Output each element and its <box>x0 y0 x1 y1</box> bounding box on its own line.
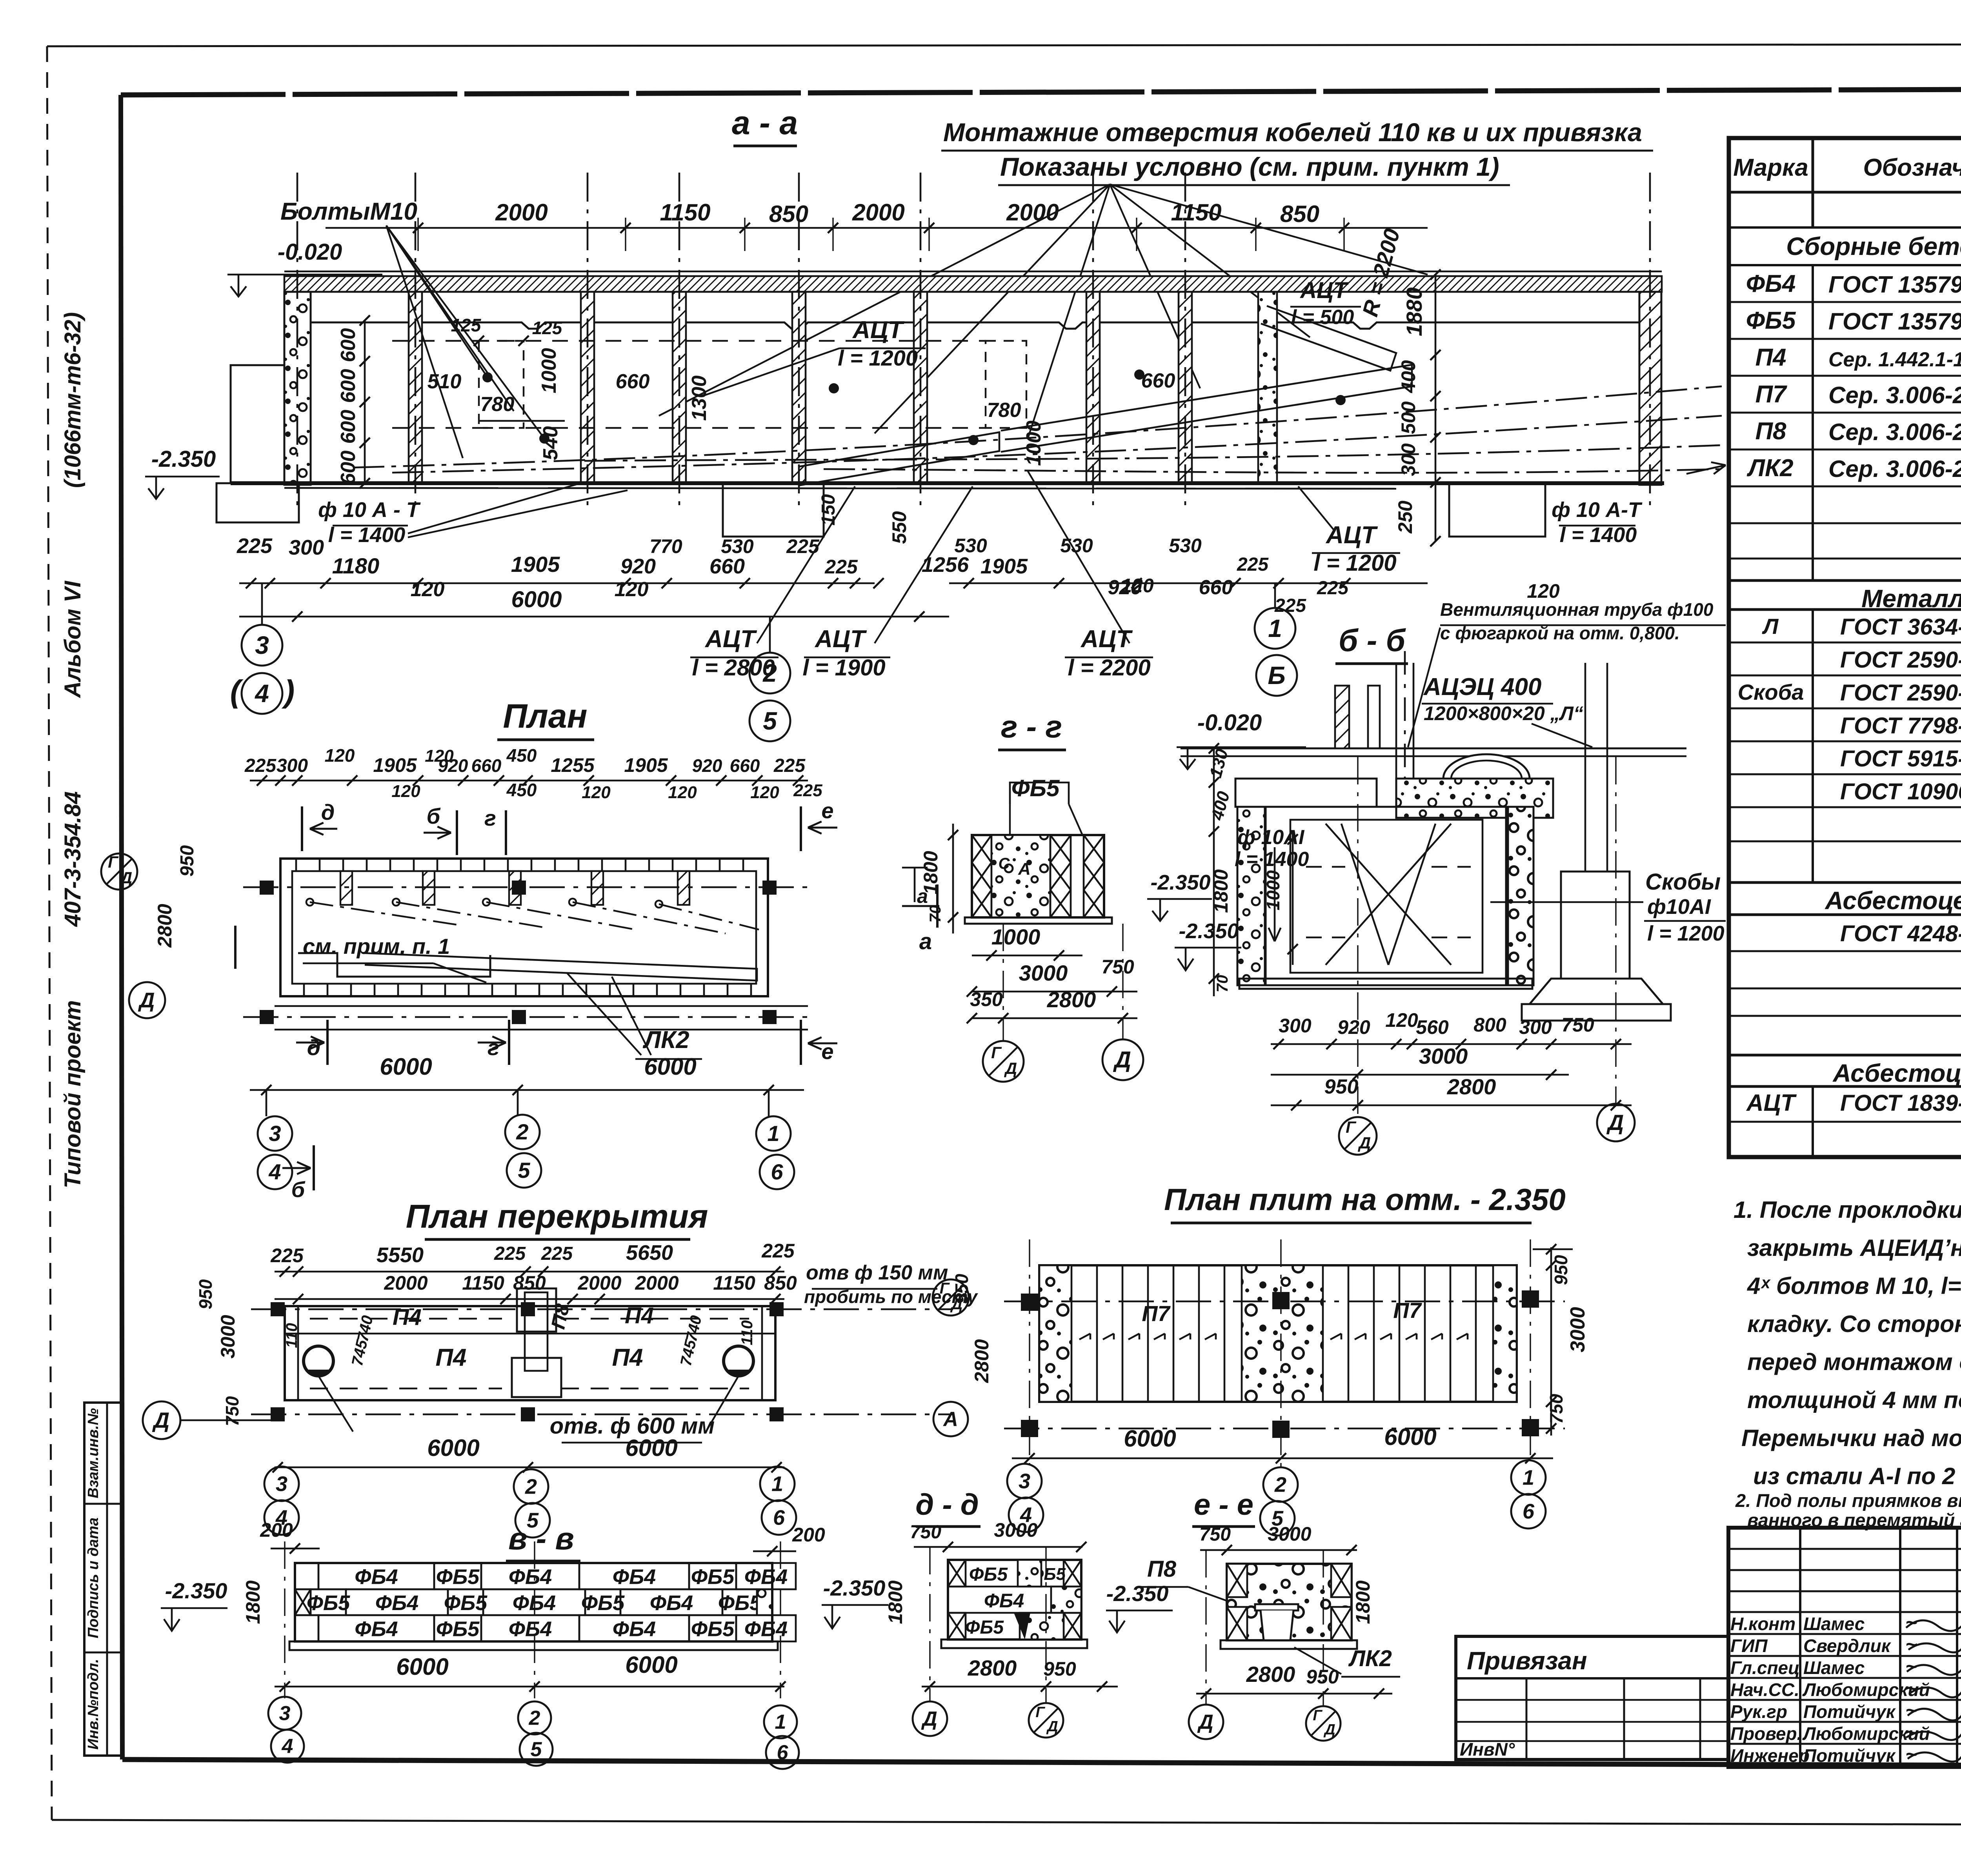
svg-text:6000: 6000 <box>625 1435 677 1461</box>
section marker г top <box>505 810 507 855</box>
svg-text:Инженер: Инженер <box>1730 1745 1810 1766</box>
svg-text:120: 120 <box>750 783 779 802</box>
b-b right pedestal <box>1561 872 1630 979</box>
svg-text:е: е <box>821 1039 833 1064</box>
b-b axis circle Д <box>1597 1104 1635 1141</box>
svg-text:850: 850 <box>769 201 808 227</box>
svg-text:2000: 2000 <box>495 199 548 226</box>
speckled pier near right opening <box>1258 292 1277 483</box>
title block left grid columns <box>1799 1528 1801 1767</box>
svg-text:ФБ5: ФБ5 <box>691 1565 735 1589</box>
svg-text:б: б <box>427 804 441 828</box>
svg-text:850: 850 <box>1280 201 1319 227</box>
horizontal dashed cable guide lines <box>392 340 986 342</box>
v-v block ФБ4 <box>579 1615 689 1641</box>
svg-text:120: 120 <box>668 783 697 802</box>
svg-text:300: 300 <box>1279 1015 1312 1037</box>
d-d base plate <box>941 1639 1087 1648</box>
svg-text:6000: 6000 <box>1124 1425 1176 1452</box>
svg-text:Асбестоцементные листы: Асбестоцементные листы <box>1825 886 1961 915</box>
slab plan axis circles <box>1007 1464 1042 1498</box>
svg-text:Д: Д <box>1197 1711 1213 1734</box>
svg-text:660: 660 <box>471 755 502 776</box>
svg-text:750: 750 <box>222 1396 242 1426</box>
svg-text:ф 10 А-Т: ф 10 А-Т <box>1552 498 1643 522</box>
svg-text:3: 3 <box>269 1121 281 1146</box>
axis circle 4 under a-a <box>242 673 282 714</box>
svg-text:План: План <box>503 697 587 735</box>
ceiling plan slab outline <box>285 1306 775 1400</box>
svg-text:6000: 6000 <box>396 1654 448 1680</box>
plan left axis circle Г/Д <box>101 853 137 890</box>
svg-text:1150: 1150 <box>1171 199 1221 226</box>
svg-text:БолтыМ10: БолтыМ10 <box>280 198 417 225</box>
g-g axis stems <box>1002 924 1004 1041</box>
svg-text:Сер. 3.006-2: Сер. 3.006-2 <box>1828 456 1961 482</box>
svg-text:120: 120 <box>582 783 611 802</box>
cable dash-dot runs exiting right <box>353 386 1722 468</box>
axis circle 2 under a-a <box>749 653 790 693</box>
bolt dots <box>482 372 493 382</box>
svg-text:125: 125 <box>451 315 482 335</box>
svg-text:(1066тм-т6-32): (1066тм-т6-32) <box>60 312 85 488</box>
table empty rows after sheets section <box>1729 1015 1961 1017</box>
svg-text:300: 300 <box>1519 1016 1552 1038</box>
v-v block ФБ4 <box>481 1563 579 1589</box>
svg-text:д - д: д - д <box>915 1488 979 1521</box>
svg-text:850: 850 <box>764 1272 797 1294</box>
svg-text:110: 110 <box>739 1320 756 1345</box>
e-e block body speckled <box>1227 1564 1352 1640</box>
d-d axis circles <box>913 1701 947 1736</box>
table row ГОСТ 4248-78 АЦЭИД 400 <box>1729 950 1961 952</box>
table row ГОСТ 10906-78 <box>1729 806 1961 808</box>
d-d row lines <box>948 1586 1081 1588</box>
svg-text:70: 70 <box>927 905 944 923</box>
d-d block body <box>948 1560 1081 1639</box>
svg-text:2800: 2800 <box>154 904 176 948</box>
svg-text:750: 750 <box>910 1522 941 1543</box>
section marker a left <box>234 926 236 969</box>
svg-text:отв ф 150 мм: отв ф 150 мм <box>806 1261 948 1284</box>
svg-text:l = 500: l = 500 <box>1291 306 1354 329</box>
svg-text:1800: 1800 <box>242 1580 264 1624</box>
table section title: Сборные бетонные и железобетонные изделия <box>1729 264 1961 266</box>
slab plan plate division lines <box>1096 1265 1098 1402</box>
svg-text:3: 3 <box>276 1472 287 1496</box>
svg-text:Д: Д <box>152 1408 169 1432</box>
table row ГОСТ 5915-70* <box>1729 773 1961 775</box>
svg-text:ФБ4: ФБ4 <box>650 1591 693 1615</box>
vent pipe vertical lines <box>1395 663 1397 809</box>
svg-text:2800: 2800 <box>971 1339 993 1383</box>
svg-text:АЦТ: АЦТ <box>1746 1090 1797 1116</box>
svg-text:ЛК2: ЛК2 <box>642 1026 689 1054</box>
svg-text:1150: 1150 <box>713 1272 755 1294</box>
svg-text:1800: 1800 <box>1352 1580 1374 1624</box>
axis circle 1 under a-a <box>1255 608 1295 649</box>
section marker е bottom right <box>800 1020 802 1065</box>
svg-text:АЦЭЦ 400: АЦЭЦ 400 <box>1423 673 1541 701</box>
slab plan axis stems <box>1029 1239 1030 1464</box>
svg-text:5: 5 <box>1272 1507 1284 1530</box>
svg-text:ФБ5: ФБ5 <box>436 1618 480 1641</box>
svg-text:150: 150 <box>818 494 839 526</box>
svg-text:3000: 3000 <box>217 1315 239 1358</box>
svg-text:300: 300 <box>289 536 324 559</box>
svg-text:ФБ4: ФБ4 <box>613 1618 656 1641</box>
axis circle А right of ceiling plan <box>933 1402 968 1436</box>
svg-text:780: 780 <box>480 393 515 416</box>
svg-text:450: 450 <box>506 780 537 800</box>
svg-text:П4: П4 <box>625 1303 654 1328</box>
axis circle Г/Д right of ceiling plan <box>933 1279 969 1316</box>
svg-text:-2.350: -2.350 <box>151 446 216 472</box>
leader from Скобы to well <box>1490 901 1643 903</box>
plan column squares on axis Б <box>260 881 274 895</box>
g-g axis circles <box>983 1041 1024 1082</box>
svg-text:Привязан: Привязан <box>1467 1647 1587 1675</box>
svg-text:225: 225 <box>1237 554 1269 575</box>
svg-text:225: 225 <box>541 1243 573 1264</box>
svg-text:кладку. Со стороны кабелей: кладку. Со стороны кабелей 110кв АЦЕИД’н… <box>1747 1311 1961 1337</box>
svg-text:920: 920 <box>1337 1016 1370 1038</box>
round hole left отв ф600 <box>304 1346 333 1376</box>
slab plan black column squares <box>1021 1294 1038 1311</box>
v-v cross block <box>295 1589 311 1615</box>
svg-text:Гл.спец: Гл.спец <box>1730 1658 1800 1678</box>
svg-text:П4: П4 <box>612 1344 643 1371</box>
svg-text:Сер. 3.006-2: Сер. 3.006-2 <box>1828 419 1961 445</box>
svg-text:770: 770 <box>649 535 682 557</box>
svg-text:1905: 1905 <box>624 754 668 776</box>
svg-text:Провер.: Провер. <box>1730 1723 1802 1744</box>
svg-text:Г: Г <box>1346 1118 1357 1136</box>
svg-text:l = 1400: l = 1400 <box>1560 523 1637 547</box>
svg-text:ГОСТ 5915-70*: ГОСТ 5915-70* <box>1840 746 1961 772</box>
arrow dim inside well <box>1274 847 1276 941</box>
b-b well right wall speckled <box>1506 807 1534 985</box>
axis circle 3 under a-a <box>242 625 282 666</box>
b-b axis circle Г/Д <box>1339 1117 1377 1155</box>
d-d speckled fills <box>1018 1560 1041 1587</box>
table row 120x80x2.0 <box>1729 988 1961 990</box>
svg-text:Перемычки над монтажными пр: Перемычки над монтажными проемами – рядо… <box>1741 1425 1961 1451</box>
svg-text:ИнвN°: ИнвN° <box>1460 1739 1515 1760</box>
svg-text:5: 5 <box>518 1158 530 1183</box>
svg-text:П8: П8 <box>1755 418 1786 445</box>
plan bottom dim line <box>250 1089 804 1091</box>
plan lower double wall lines <box>275 1005 808 1007</box>
svg-text:Нач.СС.: Нач.СС. <box>1730 1679 1799 1700</box>
svg-text:1150: 1150 <box>462 1272 504 1294</box>
svg-text:АЦТ: АЦТ <box>814 626 867 653</box>
svg-text:850: 850 <box>513 1272 546 1294</box>
svg-text:ФБ4: ФБ4 <box>509 1618 552 1641</box>
section d-d view <box>910 1488 1118 1738</box>
svg-text:в - в: в - в <box>508 1521 574 1556</box>
pipe lines to pedestal <box>1584 663 1586 872</box>
svg-text:600: 600 <box>337 369 360 403</box>
svg-text:ФБ5: ФБ5 <box>965 1617 1004 1638</box>
svg-text:АЦТ: АЦТ <box>1080 626 1133 653</box>
svg-text:ФБ4: ФБ4 <box>1746 270 1796 297</box>
v-v block ФБ5 <box>689 1563 736 1589</box>
svg-text:ФБ4: ФБ4 <box>984 1590 1024 1612</box>
interior brick pier at x=3005 <box>1179 292 1192 483</box>
table empty rows <box>1729 522 1961 524</box>
v-v block ФБ4 <box>318 1615 434 1641</box>
svg-text:1800: 1800 <box>884 1580 906 1624</box>
svg-text:2000: 2000 <box>384 1272 427 1294</box>
table row ГОСТ 7798-77* <box>1729 741 1961 742</box>
svg-text:2000: 2000 <box>635 1272 679 1294</box>
b-b well top slab left part <box>1235 779 1377 807</box>
svg-text:950: 950 <box>1306 1666 1339 1688</box>
svg-text:2800: 2800 <box>1447 1074 1496 1099</box>
slab plan outline <box>1039 1265 1517 1402</box>
right exterior wall (brick hatched) <box>1639 292 1661 485</box>
svg-text:ГОСТ 10906-78: ГОСТ 10906-78 <box>1840 779 1961 804</box>
floor slab top line <box>284 271 1662 273</box>
svg-text:Д: Д <box>1046 1718 1058 1735</box>
svg-text:Потийчук: Потийчук <box>1803 1701 1896 1722</box>
plan axis circle 3 <box>258 1116 292 1151</box>
svg-text:ГОСТ 4248-78: ГОСТ 4248-78 <box>1840 921 1961 946</box>
svg-text:120: 120 <box>391 782 420 801</box>
svg-text:а: а <box>919 929 932 954</box>
table row ФБ4 <box>1729 301 1961 303</box>
svg-text:Б: Б <box>1268 661 1285 690</box>
svg-text:5: 5 <box>531 1738 542 1761</box>
v-v block ФБ5 <box>585 1589 620 1615</box>
svg-text:6000: 6000 <box>380 1054 432 1080</box>
svg-text:Н.конт: Н.конт <box>1730 1614 1795 1634</box>
svg-text:3000: 3000 <box>1419 1044 1468 1068</box>
pit opening box right bay <box>1449 483 1545 537</box>
svg-text:530: 530 <box>721 535 754 557</box>
plan interior piers on top wall <box>340 871 352 905</box>
plan trench strip <box>365 953 757 981</box>
title block outer border <box>1728 1528 1961 1767</box>
e-e left X blocks <box>1227 1564 1247 1597</box>
svg-text:4: 4 <box>268 1159 281 1184</box>
svg-text:4: 4 <box>282 1735 293 1758</box>
section v-v view <box>161 1519 906 1769</box>
svg-text:Л: Л <box>1762 614 1779 639</box>
plan outer walls <box>280 859 768 996</box>
svg-text:Сборные бетонные и железобе: Сборные бетонные и железобетонные издели… <box>1786 232 1961 260</box>
svg-text:120: 120 <box>411 578 445 601</box>
slab plan view <box>1004 1182 1589 1536</box>
dashed mounting-hole rectangle left bay <box>479 341 524 428</box>
svg-text:1905: 1905 <box>980 555 1028 578</box>
svg-text:660: 660 <box>1141 369 1175 392</box>
svg-text:4: 4 <box>1020 1503 1032 1527</box>
svg-text:2800: 2800 <box>968 1656 1017 1680</box>
v-v block ФБ5 <box>434 1563 481 1589</box>
interior brick pier at x=1715 <box>673 292 686 483</box>
hole leader lines <box>318 1376 353 1432</box>
svg-text:Взам.инв.№: Взам.инв.№ <box>85 1408 102 1498</box>
svg-text:Г: Г <box>1313 1707 1322 1724</box>
cable tray strip diagonal 3 <box>1261 306 1396 371</box>
svg-text:600: 600 <box>337 410 360 444</box>
svg-text:3: 3 <box>1019 1469 1030 1493</box>
svg-text:660: 660 <box>1199 576 1233 599</box>
elevation mark -0.020 left <box>227 274 382 276</box>
dashed mounting-hole rectangle right bay <box>986 341 1026 428</box>
svg-text:ФБ4: ФБ4 <box>355 1565 398 1589</box>
svg-text:ГОСТ 13579-78: ГОСТ 13579-78 <box>1828 271 1961 298</box>
svg-text:225: 225 <box>244 755 277 776</box>
svg-text:920: 920 <box>692 755 722 776</box>
svg-text:110: 110 <box>283 1323 300 1348</box>
svg-text:2: 2 <box>529 1707 540 1730</box>
svg-text:2000: 2000 <box>577 1272 621 1294</box>
svg-text:Д: Д <box>138 988 155 1012</box>
svg-text:ФБ5: ФБ5 <box>718 1591 762 1615</box>
e-e right X blocks <box>1331 1564 1352 1597</box>
interior brick pier at x=2330 <box>914 292 927 483</box>
svg-text:П8: П8 <box>1147 1556 1177 1582</box>
svg-text:6: 6 <box>1523 1499 1535 1523</box>
b-b wall piers above floor <box>1335 686 1349 748</box>
section marker б top <box>456 810 458 855</box>
svg-text:2: 2 <box>762 659 777 687</box>
table header row <box>1729 191 1961 194</box>
svg-text:1880: 1880 <box>1402 287 1426 337</box>
plan top wall brick ticks <box>295 859 297 871</box>
svg-text:1200×800×20 „Л“: 1200×800×20 „Л“ <box>1424 702 1583 724</box>
v-v row edge filler <box>295 1563 318 1589</box>
table row Скоба <box>1729 708 1961 710</box>
svg-text:г - г: г - г <box>1001 709 1062 744</box>
plan axis circle 6 <box>760 1155 794 1189</box>
svg-text:ФБ5: ФБ5 <box>436 1565 480 1589</box>
svg-text:-0.020: -0.020 <box>278 239 342 265</box>
slab plan speckled band right <box>1493 1265 1517 1402</box>
attachment box Привязан <box>1456 1636 1728 1760</box>
svg-text:550: 550 <box>888 511 910 544</box>
ceiling plan black column squares bottom <box>271 1407 285 1421</box>
svg-text:6000: 6000 <box>625 1652 677 1678</box>
svg-text:закрыть АЦЕИД’ными досками: закрыть АЦЕИД’ными досками 120×80×2,0 по… <box>1747 1235 1961 1261</box>
svg-text:4: 4 <box>254 679 269 708</box>
g-g base line <box>965 917 1112 924</box>
plan top dimension chain row 1 <box>250 780 808 782</box>
svg-text:е - е: е - е <box>1194 1488 1253 1521</box>
svg-text:5: 5 <box>763 707 777 735</box>
b-b right footing <box>1530 979 1663 1004</box>
svg-text:толщиной 4 мм по всей пл: толщиной 4 мм по всей площади доски. <box>1747 1387 1961 1413</box>
svg-text:ГОСТ 1839-80*: ГОСТ 1839-80* <box>1840 1090 1961 1116</box>
b-b concrete patch with dome <box>1396 779 1553 818</box>
svg-text:6: 6 <box>773 1506 785 1529</box>
svg-text:70: 70 <box>1214 975 1231 993</box>
slab soffit line <box>284 291 1662 293</box>
svg-text:1300: 1300 <box>688 375 711 421</box>
svg-text:400: 400 <box>1397 360 1419 393</box>
cable end arrow right <box>1686 465 1726 474</box>
svg-text:е: е <box>821 798 833 823</box>
svg-text:АЦТ: АЦТ <box>1325 522 1378 549</box>
dim ticks row A <box>239 582 875 584</box>
svg-text:1180: 1180 <box>332 553 379 578</box>
svg-text:1000: 1000 <box>991 924 1041 949</box>
ceiling rib line with panel dips <box>311 322 1639 329</box>
svg-text:ФБ5: ФБ5 <box>1746 307 1796 334</box>
plan bottom wall brick ticks <box>303 984 305 996</box>
b-b well inner white chamber <box>1265 807 1508 985</box>
svg-text:950: 950 <box>177 845 198 877</box>
v-v block ФБ4 <box>481 1615 579 1641</box>
svg-text:200: 200 <box>260 1519 293 1541</box>
svg-text:ф10АІ: ф10АІ <box>1647 895 1711 919</box>
svg-text:500: 500 <box>1397 401 1419 434</box>
v-v axis stems <box>284 1541 285 1698</box>
svg-text:2000: 2000 <box>852 199 904 226</box>
v-v outer border and base <box>295 1563 772 1641</box>
svg-text:а: а <box>917 885 928 907</box>
e-e base plate <box>1221 1640 1357 1649</box>
svg-text:950: 950 <box>195 1279 216 1309</box>
svg-text:Д: Д <box>1358 1134 1371 1152</box>
leader lines to rebar labels <box>408 483 580 533</box>
svg-text:ФБ4: ФБ4 <box>375 1591 418 1615</box>
svg-text:б - б: б - б <box>1339 623 1406 658</box>
svg-text:750: 750 <box>1546 1394 1566 1424</box>
svg-text:Г: Г <box>1035 1704 1045 1721</box>
svg-text:Показаны условно (см. прим: Показаны условно (см. прим. пункт 1) <box>1000 152 1499 181</box>
title block staff rows <box>1728 1633 1961 1635</box>
dimension chain above section <box>326 227 1428 229</box>
svg-text:800: 800 <box>1473 1014 1506 1036</box>
v-v speckled end block <box>757 1589 772 1615</box>
svg-text:Монтажние отверстия кобелей: Монтажние отверстия кобелей 110 кв и их … <box>943 118 1642 147</box>
svg-text:1255: 1255 <box>551 754 595 776</box>
svg-text:см. прим. п. 1: см. прим. п. 1 <box>303 934 450 959</box>
svg-text:П7: П7 <box>1755 381 1787 408</box>
b-b well left wall <box>1237 807 1266 985</box>
svg-text:П4: П4 <box>435 1344 466 1371</box>
plan interior cable leaders <box>310 902 463 926</box>
svg-text:Д: Д <box>1323 1721 1335 1738</box>
svg-text:1. После проклодки кобелей: 1. После проклодки кобелей 110кв, монтож… <box>1734 1197 1961 1223</box>
svg-text:Скоба: Скоба <box>1738 680 1804 704</box>
svg-text:-2.350: -2.350 <box>1179 919 1239 943</box>
svg-text:510: 510 <box>427 370 462 393</box>
interior brick pier at x=2770 <box>1086 292 1100 483</box>
svg-text:Г: Г <box>108 853 119 871</box>
svg-text:750: 750 <box>1199 1524 1231 1545</box>
svg-text:660: 660 <box>730 755 760 776</box>
d-d right X end block <box>1064 1560 1081 1587</box>
svg-text:3: 3 <box>279 1702 291 1725</box>
svg-text:3000: 3000 <box>1019 961 1068 985</box>
pit opening box left of axis 2 <box>723 483 824 537</box>
svg-text:350: 350 <box>970 988 1003 1010</box>
b-b axis stems <box>1357 757 1358 1116</box>
svg-text:1000: 1000 <box>1263 870 1283 910</box>
svg-text:ФБ4: ФБ4 <box>509 1565 552 1589</box>
svg-text:Вентиляционная труба ф100: Вентиляционная труба ф100 <box>1440 599 1714 620</box>
svg-text:А: А <box>1018 859 1031 879</box>
svg-text:д: д <box>307 1035 321 1060</box>
plan axis circle 4 <box>258 1155 292 1189</box>
v-v block ФБ5 <box>311 1589 346 1615</box>
svg-text:ФБ5: ФБ5 <box>307 1591 350 1615</box>
